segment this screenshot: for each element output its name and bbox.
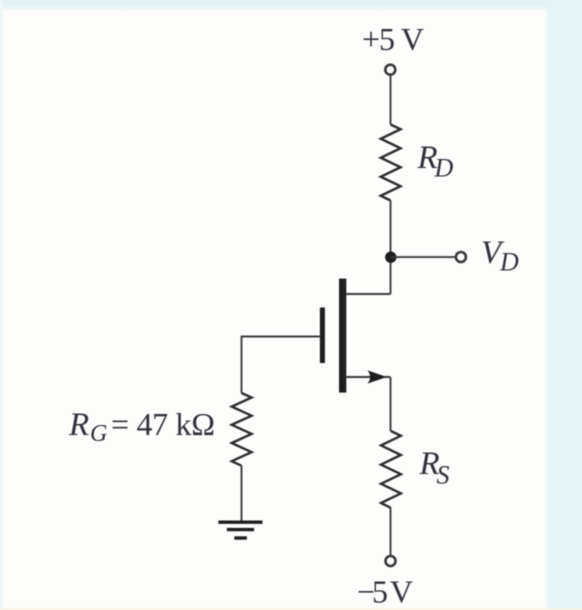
wire gate down to RG xyxy=(241,336,243,393)
transistor Q1 drain lead xyxy=(346,293,390,295)
label RS xyxy=(419,446,450,490)
terminal VD (open circle) xyxy=(456,252,466,262)
svg-text:R: R xyxy=(68,407,89,443)
wire from RD to drain node xyxy=(390,201,392,295)
wire source to RS xyxy=(390,377,392,431)
wire gate lead xyxy=(242,336,320,338)
node drain junction (dot) xyxy=(385,252,396,263)
terminal -5 V (open circle) xyxy=(386,556,396,566)
terminal +5 V (open circle) xyxy=(385,65,395,75)
resistor RS xyxy=(381,431,401,508)
wire RG to ground xyxy=(241,466,243,521)
transistor Q1 source lead with arrow xyxy=(346,370,390,383)
svg-text:−5 V: −5 V xyxy=(357,574,413,610)
svg-text:S: S xyxy=(437,461,450,490)
ground xyxy=(218,522,262,538)
transistor Q1 gate bar xyxy=(320,308,325,364)
resistor RG xyxy=(232,393,252,466)
wire node to VD terminal xyxy=(391,256,456,258)
svg-text:G: G xyxy=(90,421,107,447)
svg-text:D: D xyxy=(499,248,519,277)
wire RS to -5V terminal xyxy=(390,508,392,556)
wire from +5V terminal to RD xyxy=(390,76,392,125)
label RG = 47 kOhm xyxy=(68,406,215,447)
resistor RD xyxy=(381,125,401,201)
label VD xyxy=(481,235,519,277)
svg-text:+5 V: +5 V xyxy=(362,21,424,57)
transistor Q1 channel bar xyxy=(339,279,346,393)
svg-text:= 47 kΩ: = 47 kΩ xyxy=(111,406,215,442)
svg-text:D: D xyxy=(434,154,454,183)
label RD xyxy=(417,140,454,183)
